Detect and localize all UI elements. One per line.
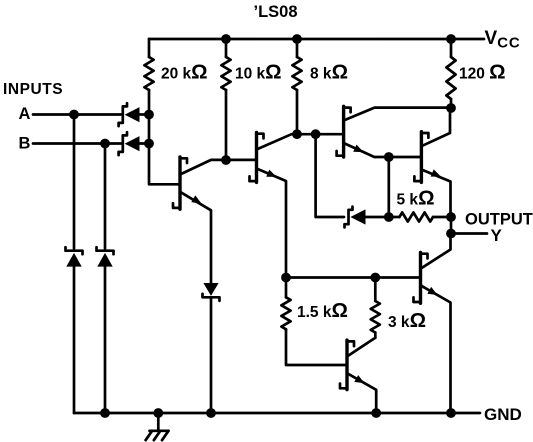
svg-text:GND: GND [484, 405, 522, 424]
node Q1 emitter at rail [206, 408, 216, 418]
node A diode anode junction [144, 110, 154, 120]
diode D1 input A schottky [119, 103, 149, 126]
svg-text:1.5 kΩ: 1.5 kΩ [297, 299, 348, 322]
node B diode anode junction [144, 139, 154, 149]
diode D2 input B schottky [119, 132, 149, 155]
resistor R1 20 kOhm [144, 39, 207, 90]
wire Y lead [451, 232, 487, 235]
transistor Q2 phase splitter [250, 132, 298, 277]
node 8k / Q2 collector junction [292, 129, 302, 139]
resistor R4 120 Ohm [446, 39, 505, 108]
svg-text:’LS08: ’LS08 [254, 3, 298, 21]
node ground symbol at rail [153, 408, 163, 418]
diode D4 clamp B schottky [97, 247, 114, 413]
node 120 top junction [446, 34, 456, 44]
node B line at rail [100, 408, 110, 418]
svg-text:B: B [19, 134, 31, 152]
label VCC [485, 28, 521, 52]
diode D5 Q1 emitter schottky [203, 283, 220, 413]
wire node134 to Q3a base [297, 133, 344, 136]
node 1.5k top junction [281, 273, 291, 283]
node 8k top junction [292, 34, 302, 44]
svg-text:10 kΩ: 10 kΩ [235, 61, 282, 84]
node Q5 emitter at rail [446, 408, 456, 418]
svg-text:8 kΩ: 8 kΩ [310, 61, 348, 84]
wire input A clamp branch [73, 115, 76, 249]
transistor Q5 output pulldown [414, 234, 451, 414]
wire input B clamp branch [104, 144, 107, 249]
svg-text:V: V [485, 28, 498, 49]
resistor R5 5 kOhm [389, 187, 451, 222]
diode D6 schottky at 5k row [345, 207, 389, 228]
svg-text:20 kΩ: 20 kΩ [161, 61, 208, 84]
resistor R7 3 kOhm [371, 278, 426, 338]
node 120 ohm bottom junction [446, 103, 456, 113]
svg-text:5 kΩ: 5 kΩ [397, 187, 435, 210]
node mid junction on 134 line [311, 129, 321, 139]
svg-text:120 Ω: 120 Ω [459, 61, 506, 84]
wire phase splitter emitter row [286, 276, 421, 279]
node Q3 emitter junction [384, 152, 394, 162]
resistor R3 8 kOhm [292, 39, 348, 134]
node A junction on input line [69, 110, 79, 120]
svg-text:3 kΩ: 3 kΩ [388, 309, 426, 332]
node Q1 collector junction [221, 155, 231, 165]
svg-text:CC: CC [497, 35, 520, 52]
wire 20k bottom to Q1 base [149, 90, 180, 184]
transistor Q4 darlington second [389, 108, 451, 217]
ground symbol [146, 413, 169, 440]
resistor R6 1.5 kOhm [281, 278, 348, 366]
wire VCC rail [149, 38, 484, 41]
node Q6 emitter at rail [371, 408, 381, 418]
node 5k left junction [384, 212, 394, 222]
wire Q3 emitter node down to 5k [387, 157, 390, 217]
node 5k right junction [446, 212, 456, 222]
resistor R2 10 kOhm [221, 39, 281, 160]
transistor Q1 input [173, 157, 226, 283]
node output Y junction [446, 229, 456, 239]
diode D3 clamp A schottky [66, 247, 83, 413]
wire output column [450, 217, 453, 234]
svg-text:Y: Y [491, 226, 503, 245]
transistor Q6 lower output [340, 338, 376, 413]
wire input B [33, 142, 121, 145]
wire Q2 base [226, 159, 257, 162]
node 3k top junction [370, 273, 380, 283]
wire input A [33, 113, 121, 116]
transistor Q3 darlington first [337, 106, 451, 157]
svg-text:INPUTS: INPUTS [3, 81, 63, 98]
node B junction on input line [100, 139, 110, 149]
wire node134 down to diode row [316, 134, 344, 217]
svg-text:A: A [19, 105, 31, 123]
wire GND rail [74, 412, 480, 415]
node 10k top junction [221, 34, 231, 44]
